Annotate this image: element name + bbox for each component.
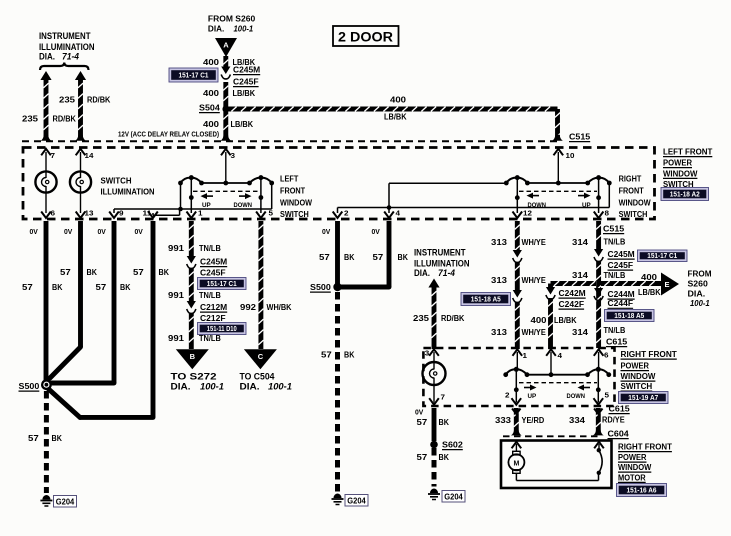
svg-text:C212F: C212F (200, 313, 226, 323)
pin 11 riser (152, 213, 154, 215)
wire 313 WH/YE pin 12 segment 2 (515, 262, 520, 292)
svg-text:151-18 A5: 151-18 A5 (471, 294, 501, 303)
svg-text:A: A (223, 41, 229, 50)
svg-text:400: 400 (641, 272, 657, 282)
svg-text:57: 57 (417, 417, 428, 427)
wire drop to C515 (555, 109, 560, 140)
wire 57 BK dashed S500 center to G204 (335, 292, 340, 492)
component box: right front power window switch (dashed) (423, 348, 614, 406)
svg-text:WINDOW: WINDOW (663, 168, 698, 178)
svg-text:TN/LB: TN/LB (199, 333, 221, 343)
svg-text:991: 991 (168, 243, 184, 253)
svg-text:G204: G204 (444, 493, 463, 502)
svg-text:992: 992 (240, 302, 256, 312)
motor reversing arc (599, 450, 602, 473)
svg-text:11: 11 (143, 209, 152, 218)
svg-text:991: 991 (168, 333, 184, 343)
wire 57 BK pin 4 down, elbow to S500 (center) (387, 221, 392, 287)
svg-text:0V: 0V (372, 229, 381, 236)
right window switch: UP indicator arrow (578, 195, 586, 197)
switch illumination lamp (pin 14-13) (70, 171, 91, 192)
svg-text:BK: BK (344, 252, 355, 262)
svg-text:S260: S260 (688, 279, 709, 289)
pin 1 arrow (box bottom) (187, 212, 197, 219)
triangle connector A from S260 (215, 38, 237, 57)
left window switch: wiper dashed line (193, 190, 259, 192)
junction dot pin 4 net (387, 205, 392, 210)
svg-text:POWER: POWER (618, 452, 647, 462)
service label box 151-11 D10 (198, 323, 247, 335)
svg-text:334: 334 (569, 415, 585, 425)
svg-text:TN/LB: TN/LB (604, 270, 626, 280)
svg-text:235: 235 (59, 95, 75, 105)
arrow up (235 RD/BK right branch) (428, 279, 439, 288)
svg-text:RIGHT FRONT: RIGHT FRONT (618, 442, 673, 452)
svg-text:314: 314 (572, 327, 588, 337)
svg-text:57: 57 (417, 452, 428, 462)
svg-text:9: 9 (119, 209, 124, 218)
svg-text:1: 1 (523, 351, 528, 360)
svg-text:991: 991 (168, 290, 184, 300)
svg-text:LEFT FRONT: LEFT FRONT (663, 147, 713, 157)
svg-text:INSTRUMENT: INSTRUMENT (39, 31, 91, 41)
svg-text:0V: 0V (98, 229, 107, 236)
svg-text:WH/BK: WH/BK (267, 302, 293, 312)
pin 3 arrow (rf switch top) (429, 349, 439, 356)
pin 2 arrow (box bottom) (333, 212, 343, 219)
svg-text:0V: 0V (322, 229, 331, 236)
svg-text:POWER: POWER (621, 361, 650, 371)
svg-text:BK: BK (52, 282, 63, 292)
left window switch: UP indicator arrow (206, 195, 214, 197)
motor pin arrow left (512, 442, 522, 449)
svg-text:ILLUMINATION: ILLUMINATION (39, 42, 95, 52)
svg-text:12V (ACC DELAY RELAY CLOSED): 12V (ACC DELAY RELAY CLOSED) (118, 132, 219, 139)
pin 3 arrow (box top) (221, 149, 231, 156)
title box 2 DOOR (333, 26, 399, 46)
wire 57 BK pin 7 to S602 (432, 408, 437, 441)
svg-text:BK: BK (344, 350, 355, 360)
svg-text:C245M: C245M (233, 65, 260, 75)
svg-text:C245F: C245F (233, 77, 259, 87)
svg-text:ILLUMINATION: ILLUMINATION (414, 259, 470, 269)
service label box 151-16 A6 (617, 484, 667, 497)
svg-text:6: 6 (604, 351, 609, 360)
svg-text:400: 400 (390, 95, 406, 105)
pin 10 arrow (box top) (554, 149, 564, 156)
svg-text:313: 313 (491, 275, 507, 285)
wire 992 WH/BK pin 5 (258, 221, 263, 349)
svg-text:BK: BK (159, 267, 170, 277)
svg-text:C212M: C212M (200, 302, 227, 312)
rf switch outer contacts (503, 372, 508, 377)
connector C244M/C244F symbol on 314 wire (594, 288, 603, 296)
svg-text:100-1: 100-1 (234, 23, 254, 33)
svg-text:WH/YE: WH/YE (522, 327, 547, 337)
svg-text:100-1: 100-1 (690, 298, 710, 308)
svg-text:C615: C615 (609, 404, 630, 414)
pin 4 arrow (box bottom) (384, 212, 394, 219)
motor M symbol (513, 451, 520, 455)
connector C604 dashed line (503, 435, 599, 437)
svg-text:UP: UP (528, 393, 537, 400)
right window switch: pivot lead to pin 12 (516, 178, 518, 213)
svg-text:RD/YE: RD/YE (602, 415, 625, 425)
svg-text:235: 235 (413, 313, 429, 323)
wire 235 RD/BK to right switch lamp (431, 288, 436, 350)
svg-text:0V: 0V (30, 229, 39, 236)
wire 57 BK pin 9 down, elbow to S500 (112, 221, 117, 383)
wire 333 YE/RD pin 2 to motor (514, 408, 519, 435)
svg-text:C245F: C245F (200, 268, 226, 278)
svg-text:TN/LB: TN/LB (199, 290, 221, 300)
wire 235 RD/BK (right) vertical (78, 80, 83, 140)
right window switch: DOWN indicator arrow (532, 195, 540, 197)
brace under instrument illumination label (40, 63, 89, 71)
left window switch: pivot lead to pin 1 (190, 178, 192, 213)
lamp lead to pin 13 (80, 193, 82, 213)
svg-text:G204: G204 (347, 497, 366, 506)
svg-text:M: M (513, 460, 519, 467)
svg-text:FRONT: FRONT (619, 186, 645, 196)
svg-text:LB/BK: LB/BK (231, 119, 254, 129)
12V ACC bus dashed wire (22, 140, 558, 142)
svg-text:DOWN: DOWN (234, 202, 253, 209)
service label box 151-17 C1 (right instance) (638, 250, 688, 262)
net pin2/pin4 horizontal (338, 207, 610, 209)
svg-text:ILLUMINATION: ILLUMINATION (101, 187, 155, 197)
svg-text:RD/BK: RD/BK (87, 95, 111, 105)
svg-text:WINDOW: WINDOW (621, 371, 657, 381)
svg-text:TN/LB: TN/LB (604, 325, 626, 335)
svg-text:MOTOR: MOTOR (618, 472, 646, 482)
rf switch left pivot and arms (514, 367, 519, 372)
pin 11 arrow (box bottom) (148, 212, 158, 219)
wire 400 LB/BK segment C245 to S504 (223, 82, 228, 107)
svg-text:151-18 A2: 151-18 A2 (670, 189, 700, 198)
svg-text:BK: BK (439, 417, 450, 427)
right window switch: contact bar (527, 182, 587, 184)
svg-text:57: 57 (133, 267, 144, 277)
connector C242M/C242F symbol (546, 287, 555, 295)
svg-text:TN/LB: TN/LB (199, 243, 221, 253)
svg-text:71-4: 71-4 (438, 268, 456, 278)
svg-text:C244F: C244F (608, 298, 634, 308)
svg-text:DIA.: DIA. (688, 289, 706, 299)
rf switch UP indicator arrow (524, 387, 532, 389)
svg-text:DIA.: DIA. (208, 23, 224, 33)
svg-text:12: 12 (523, 209, 532, 218)
ground G204 (left) (40, 495, 52, 506)
wire 57 BK pin 11 down, around to S500 (151, 221, 156, 417)
connector C245M/C245F symbol (top) (221, 67, 230, 75)
svg-text:WINDOW: WINDOW (618, 462, 652, 472)
tap 400 LB/BK to C242 (left) (551, 281, 597, 286)
svg-text:POWER: POWER (663, 158, 693, 168)
wire 400 LB/BK segment S504 down to 12V bus (223, 111, 228, 140)
left window switch: right pivot and arms (258, 175, 263, 180)
service label box 151-19 A7 (619, 392, 669, 404)
right window switch: left pivot and arms (515, 175, 520, 180)
rf lamp lead to pin 7 (433, 385, 435, 403)
pin 9 arrow (box bottom) (109, 212, 119, 219)
rf switch pivot lead to pin 2 (515, 369, 517, 402)
svg-text:100-1: 100-1 (200, 382, 224, 393)
svg-text:SWITCH: SWITCH (619, 209, 648, 219)
pin 6 arrow (rf switch top) (594, 349, 604, 356)
svg-text:FRONT: FRONT (280, 186, 306, 196)
splice S504 node (222, 106, 229, 113)
ground label box G204 (center) (345, 495, 368, 507)
svg-text:UP: UP (202, 202, 211, 209)
svg-text:S602: S602 (442, 440, 463, 450)
svg-text:71-4: 71-4 (62, 52, 80, 62)
connector arrow on 313 wire (C242 row) (513, 290, 522, 298)
svg-text:DIA.: DIA. (414, 268, 430, 278)
svg-text:151-17 C1: 151-17 C1 (647, 251, 677, 260)
pin 5 arrow (box bottom) (256, 212, 266, 219)
svg-text:FROM: FROM (688, 269, 712, 279)
pin 2 arrow (rf switch bottom) (512, 398, 522, 405)
svg-text:0V: 0V (415, 410, 424, 417)
right window switch: right pivot and arms (596, 175, 601, 180)
component box: left front power window switch (dashed) (23, 148, 655, 220)
left window switch: pivot lead to pin 5 (260, 178, 262, 213)
ground G204 (center) (332, 494, 344, 505)
svg-text:13: 13 (85, 209, 94, 218)
svg-text:314: 314 (572, 237, 588, 247)
svg-text:DOWN: DOWN (567, 393, 586, 400)
svg-text:5: 5 (605, 391, 610, 400)
svg-text:C515: C515 (569, 132, 590, 142)
arrow up to instrument illumination (wire 235 RD/BK left) (40, 71, 51, 80)
svg-text:B: B (190, 352, 196, 361)
wire 57 BK dashed S602 to G204 (right) (432, 448, 437, 487)
svg-text:C245M: C245M (608, 249, 635, 259)
triangle connector B to S272 (176, 349, 209, 369)
ground G204 (right) (428, 489, 440, 500)
svg-text:400: 400 (531, 315, 547, 325)
rf switch pivot lead to pin 5 (597, 369, 599, 402)
left window switch: DOWN indicator arrow (239, 195, 247, 197)
svg-text:C: C (258, 352, 264, 361)
svg-text:57: 57 (321, 350, 332, 360)
svg-text:SWITCH: SWITCH (621, 381, 653, 391)
rf switch DOWN indicator arrow (583, 387, 591, 389)
arrow up to instrument illumination (wire 235 RD/BK right) (75, 71, 86, 80)
wire 313 WH/YE pin 12 segment 1 (515, 221, 520, 252)
svg-text:DIA.: DIA. (240, 382, 260, 393)
right window switch: wiper dashed line (519, 190, 597, 192)
service label box 151-18 A5 (right instance) (605, 310, 655, 322)
svg-text:TN/LB: TN/LB (604, 237, 626, 247)
pin 13 arrow (box bottom) (76, 212, 86, 219)
pin 4 riser to left outer contact (388, 183, 390, 213)
elbow down to C242 (548, 284, 553, 289)
svg-text:WH/YE: WH/YE (522, 275, 547, 285)
pin 6 arrow (box bottom) (41, 212, 51, 219)
svg-text:6: 6 (51, 209, 56, 218)
svg-text:8: 8 (605, 209, 610, 218)
svg-text:FROM S260: FROM S260 (208, 14, 256, 24)
svg-text:S504: S504 (199, 103, 220, 113)
svg-text:151-16 A6: 151-16 A6 (627, 485, 657, 494)
svg-text:151-18 A5: 151-18 A5 (614, 311, 644, 320)
svg-text:C615: C615 (606, 337, 627, 347)
svg-text:151-19 A7: 151-19 A7 (628, 393, 658, 402)
svg-text:C515: C515 (603, 224, 624, 234)
pin 5 arrow (rf switch bottom) (594, 398, 604, 405)
service label box 151-18 A2 (661, 188, 709, 201)
svg-text:3: 3 (425, 349, 430, 358)
svg-text:C245M: C245M (200, 257, 227, 267)
service label box 151-17 C1 (top) (169, 68, 218, 82)
lamp lead to pin 6 (45, 193, 47, 213)
svg-text:DIA.: DIA. (39, 52, 55, 62)
wire 334 RD/YE pin 5 to motor (596, 408, 601, 435)
svg-text:E: E (664, 280, 669, 289)
connector C245M/C245F symbol (pin 1 wire) (187, 256, 196, 264)
svg-text:BK: BK (52, 433, 63, 443)
svg-text:DIA.: DIA. (171, 382, 191, 393)
svg-text:YE/RD: YE/RD (522, 415, 545, 425)
connector C245M/C245F symbol (pin 8 wire) (594, 249, 603, 257)
svg-text:WINDOW: WINDOW (619, 198, 652, 208)
left window switch: contact bar (202, 182, 250, 184)
svg-text:400: 400 (203, 119, 219, 129)
svg-text:BK: BK (439, 452, 450, 462)
svg-text:0V: 0V (64, 229, 73, 236)
svg-text:2: 2 (344, 209, 349, 218)
svg-text:57: 57 (28, 433, 39, 443)
service label box 151-17 C1 (pin 1 wire) (198, 278, 247, 290)
svg-text:LB/BK: LB/BK (233, 88, 256, 98)
service label box 151-18 A5 (left instance) (461, 293, 511, 306)
left window switch: left pivot and arms (189, 175, 194, 180)
rf switch right pivot and arms (596, 367, 601, 372)
svg-text:57: 57 (22, 282, 33, 292)
svg-text:7: 7 (51, 151, 56, 160)
svg-text:BK: BK (398, 252, 409, 262)
svg-text:4: 4 (558, 351, 563, 360)
svg-text:LEFT: LEFT (280, 174, 299, 184)
svg-text:57: 57 (373, 252, 384, 262)
svg-text:BK: BK (87, 267, 98, 277)
svg-text:400: 400 (203, 88, 219, 98)
svg-text:57: 57 (319, 252, 330, 262)
svg-text:SWITCH: SWITCH (280, 209, 309, 219)
wire 235 RD/BK (left) vertical (43, 80, 48, 140)
svg-text:7: 7 (441, 393, 446, 402)
component box: right front power window motor (solid) (501, 441, 612, 489)
svg-text:151-11 D10: 151-11 D10 (207, 324, 237, 333)
pin 8 arrow (box bottom) (594, 212, 604, 219)
svg-text:S500: S500 (310, 282, 331, 292)
svg-text:235: 235 (22, 114, 38, 124)
svg-text:LB/BK: LB/BK (638, 287, 661, 297)
wire 400 LB/BK horizontal S504 to C515 (228, 107, 558, 112)
motor pin arrow right (594, 442, 604, 449)
wire 57 BK pin 6 down to S500 (44, 221, 49, 381)
svg-text:151-17 C1: 151-17 C1 (207, 279, 237, 288)
wire 991 TN/LB pin 1 segment 2 (189, 268, 194, 303)
svg-text:57: 57 (96, 282, 107, 292)
svg-text:14: 14 (85, 151, 94, 160)
svg-text:3: 3 (231, 151, 236, 160)
svg-text:0V: 0V (135, 229, 144, 236)
svg-text:BK: BK (120, 282, 131, 292)
wire 57 BK dashed S500 to G204 (left) (44, 391, 49, 493)
rf switch wiper dashed line (519, 382, 597, 384)
triangle connector C to C504 (244, 349, 277, 369)
splice S602 node (430, 441, 438, 449)
svg-text:S500: S500 (19, 381, 40, 391)
wire 314 TN/LB pin 8 segment 2 (596, 261, 601, 348)
svg-text:RD/BK: RD/BK (53, 114, 77, 124)
pin 1 arrow (rf switch top) (513, 349, 523, 356)
svg-text:WINDOW: WINDOW (280, 198, 313, 208)
rf switch lamp (423, 362, 446, 385)
svg-text:5: 5 (269, 209, 274, 218)
svg-text:RD/BK: RD/BK (441, 313, 465, 323)
svg-text:314: 314 (572, 270, 588, 280)
wire 314 TN/LB pin 8 segment 1 (596, 221, 601, 251)
wire 313 WH/YE pin 12 segment 3 (515, 302, 520, 349)
right window switch: pivot lead to pin 8 (598, 178, 600, 213)
pin 4 arrow (rf switch top) (546, 349, 556, 356)
net pin 9 horizontal to right outer contact (114, 208, 272, 210)
svg-text:C245F: C245F (608, 260, 634, 270)
svg-text:RIGHT FRONT: RIGHT FRONT (621, 349, 678, 359)
tap 400 LB/BK to E (right) (601, 281, 661, 286)
svg-text:10: 10 (566, 151, 575, 160)
pin 9 stub (113, 209, 115, 213)
pin 14 arrow (box top) (76, 149, 86, 156)
right window switch: outer contacts (504, 181, 509, 186)
svg-text:LB/BK: LB/BK (384, 112, 407, 122)
left window switch: outer contacts (178, 181, 183, 186)
svg-text:333: 333 (495, 415, 511, 425)
splice S500 (center) node (333, 283, 341, 291)
svg-text:313: 313 (491, 237, 507, 247)
rf switch contact bar (527, 374, 588, 376)
svg-text:1: 1 (198, 209, 203, 218)
pin 12 arrow (box bottom) (513, 212, 523, 219)
svg-text:SWITCH: SWITCH (101, 176, 132, 186)
svg-text:C242F: C242F (559, 299, 585, 309)
connector arrow on 313 wire (C245 row) (513, 250, 522, 258)
svg-text:4: 4 (396, 209, 401, 218)
wire 991 TN/LB pin 1 segment 3 (189, 313, 194, 349)
ground label box G204 (left) (54, 496, 77, 508)
svg-text:2: 2 (505, 391, 510, 400)
wire 57 BK pin 13 down then diagonal to S500 (78, 221, 83, 347)
svg-text:57: 57 (60, 267, 71, 277)
pin 7 arrow (box top) (41, 149, 51, 156)
ground label box G204 (right) (442, 491, 465, 503)
svg-text:C242M: C242M (559, 288, 586, 298)
svg-text:2 DOOR: 2 DOOR (338, 30, 393, 45)
svg-text:313: 313 (491, 327, 507, 337)
svg-text:400: 400 (203, 57, 219, 67)
left window switch: left outer contact drop (180, 183, 182, 209)
wire 991 TN/LB pin 1 segment 1 (189, 221, 194, 258)
triangle connector E from S260 (661, 273, 679, 296)
svg-text:G204: G204 (56, 498, 75, 507)
connector C212M/C212F symbol (187, 301, 196, 309)
svg-text:100-1: 100-1 (268, 382, 292, 393)
wire 400 LB/BK segment A to C245 (223, 56, 228, 68)
